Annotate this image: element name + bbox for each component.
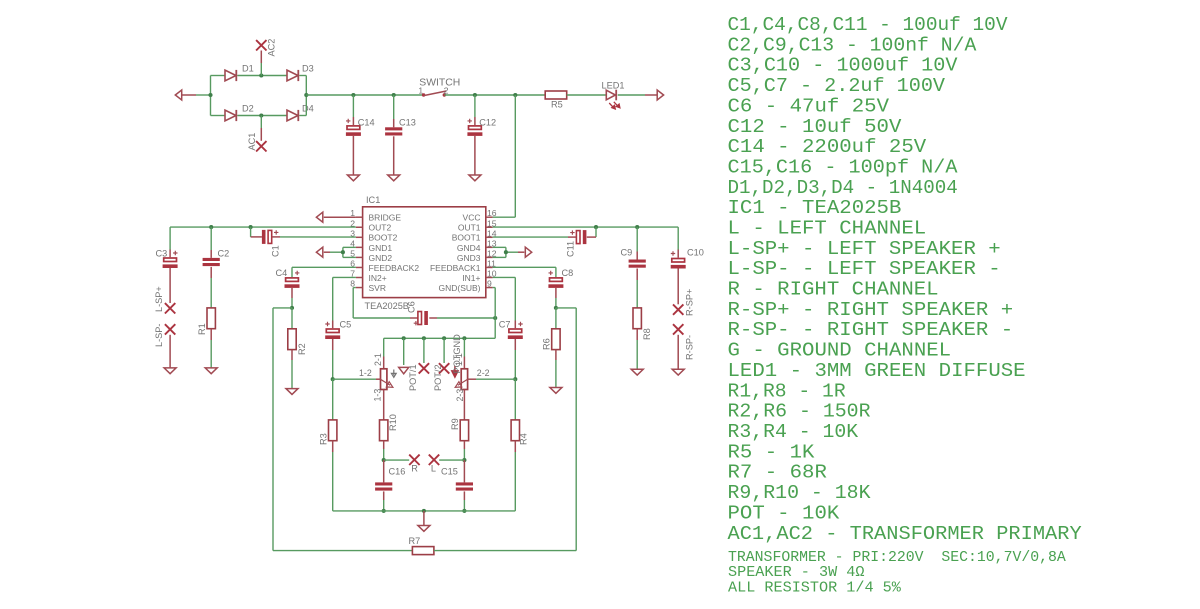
junction VCC drop xyxy=(513,93,517,97)
svg-text:C15,C16 - 100pf N/A: C15,C16 - 100pf N/A xyxy=(728,157,958,179)
pin POT2 1-1 xyxy=(463,357,465,369)
wire node to R2 xyxy=(291,308,293,329)
wire C11 to BOOT1 xyxy=(493,236,568,238)
wire R5 to LED1 xyxy=(567,94,606,96)
resistor R7 xyxy=(412,547,434,555)
wire node down to R3 xyxy=(332,379,334,420)
pin 9 stub xyxy=(486,287,493,289)
pin R2 bottom xyxy=(291,350,293,360)
connector POTGND arrow xyxy=(452,366,458,377)
potentiometer POT1 body xyxy=(381,369,387,390)
wire SVR to C6 xyxy=(353,317,410,319)
diode D4 xyxy=(287,110,298,121)
wire OUT2 down to C3 xyxy=(169,227,171,249)
wire R10 to input node xyxy=(383,449,385,460)
wire FEEDBACK1 xyxy=(493,266,556,268)
junction C11 branch xyxy=(594,225,598,229)
svg-text:POT/1: POT/1 xyxy=(408,364,418,391)
pin gnd arrow right xyxy=(518,251,524,253)
capacitor C16 xyxy=(375,482,392,490)
svg-text:SWITCH: SWITCH xyxy=(419,77,460,88)
svg-text:GND4: GND4 xyxy=(457,243,481,253)
resistor R9 xyxy=(460,420,468,441)
svg-text:R2,R6 - 150R: R2,R6 - 150R xyxy=(728,401,871,423)
wire C5 to pot node xyxy=(332,350,334,379)
svg-text:POT - 10K: POT - 10K xyxy=(728,502,840,524)
svg-text:R5: R5 xyxy=(551,100,563,110)
wire bridge left vertical xyxy=(210,76,212,116)
pin POT1 2-1 xyxy=(383,357,385,369)
junction bridge right xyxy=(304,93,308,97)
pin 10 stub xyxy=(486,277,493,279)
pin R6 bottom xyxy=(555,350,557,360)
svg-text:R2: R2 xyxy=(297,343,307,355)
connector POT/1 arrow xyxy=(399,367,409,373)
pin 2 stub xyxy=(356,226,363,228)
POT1 adjust arrow xyxy=(391,370,396,378)
pin 6 stub xyxy=(356,266,363,268)
junction X mark 1 xyxy=(422,336,426,340)
connector AC1 xyxy=(256,141,266,151)
pin C6 left xyxy=(410,317,418,319)
svg-text:C10: C10 xyxy=(687,248,704,258)
svg-text:C13: C13 xyxy=(399,117,416,127)
pin C8 bottom xyxy=(555,288,557,298)
capacitor C14 xyxy=(346,119,361,136)
junction C13 xyxy=(392,93,396,97)
svg-text:R8: R8 xyxy=(642,328,652,340)
svg-text:OUT1: OUT1 xyxy=(458,223,481,233)
wire SVR stub xyxy=(353,287,356,289)
pin C3 top xyxy=(169,250,171,258)
svg-text:R10: R10 xyxy=(388,414,398,431)
connector AC2 xyxy=(256,40,266,50)
ground below R8 xyxy=(631,369,643,375)
resistor R3 xyxy=(329,420,337,441)
svg-text:LED1 - 3MM GREEN DIFFUSE: LED1 - 3MM GREEN DIFFUSE xyxy=(728,360,1026,382)
wire down to C4 xyxy=(291,267,293,277)
svg-text:C14: C14 xyxy=(358,117,375,127)
svg-text:R9: R9 xyxy=(450,418,460,430)
svg-text:L-SP+ - LEFT SPEAKER +: L-SP+ - LEFT SPEAKER + xyxy=(728,238,1001,260)
wire rail to C12 xyxy=(474,95,476,117)
legend notes small xyxy=(728,550,1066,597)
ground below R2 xyxy=(286,389,298,395)
svg-text:C11: C11 xyxy=(566,241,576,257)
resistor R1 xyxy=(207,308,215,329)
svg-text:G - GROUND CHANNEL: G - GROUND CHANNEL xyxy=(728,340,952,362)
svg-text:C7: C7 xyxy=(499,320,511,330)
svg-text:ALL RESISTOR 1/4 5%: ALL RESISTOR 1/4 5% xyxy=(728,581,901,597)
svg-text:R5 - 1K: R5 - 1K xyxy=(728,441,815,463)
ground below R1 xyxy=(205,368,217,374)
svg-text:SVR: SVR xyxy=(369,283,386,293)
wire R4 to bottom bus xyxy=(514,452,516,511)
junction C2 top xyxy=(209,225,213,229)
connector L-SP+ xyxy=(165,303,175,313)
pin 8 stub xyxy=(356,287,363,289)
svg-text:1-2: 1-2 xyxy=(359,368,372,378)
diode D1 xyxy=(225,70,236,81)
junction POT/1 connector xyxy=(402,336,406,340)
svg-text:R: R xyxy=(411,464,418,474)
svg-text:D1,D2,D3,D4 - 1N4004: D1,D2,D3,D4 - 1N4004 xyxy=(728,177,958,199)
svg-text:VCC: VCC xyxy=(463,213,481,223)
capacitor C11 xyxy=(570,230,586,244)
svg-text:D4: D4 xyxy=(302,104,314,114)
wire OUT1 rail xyxy=(493,226,679,228)
svg-text:R1,R8 - 1R: R1,R8 - 1R xyxy=(728,380,846,402)
svg-text:D1: D1 xyxy=(242,64,254,74)
LED LED1 xyxy=(606,90,620,109)
wire IN1+ down to C7 xyxy=(514,277,516,320)
pin R10 bottom xyxy=(383,441,385,449)
wire bus to POT1 xyxy=(383,338,385,356)
wire R3 to bottom bus xyxy=(332,452,334,511)
pin R8 bottom xyxy=(636,329,638,340)
wire OUT1 down to C10 xyxy=(677,227,679,249)
wire D2 cathode to D4 anode xyxy=(238,115,288,117)
connector gnd arrow left xyxy=(316,247,322,257)
connector R-SP- xyxy=(673,324,683,334)
svg-text:C3,C10 - 1000uf 10V: C3,C10 - 1000uf 10V xyxy=(728,55,958,77)
connector L-SP- xyxy=(165,324,175,334)
svg-text:R3,R4 - 10K: R3,R4 - 10K xyxy=(728,421,859,443)
svg-text:GND2: GND2 xyxy=(369,253,393,263)
svg-text:LED1: LED1 xyxy=(602,80,625,90)
svg-text:1-1: 1-1 xyxy=(454,353,464,366)
wire OUT2 rail xyxy=(170,226,356,228)
capacitor C15 xyxy=(456,482,473,490)
svg-text:OUT2: OUT2 xyxy=(369,223,392,233)
svg-text:R3: R3 xyxy=(319,433,329,445)
junction C7/R4/POT2 xyxy=(513,377,517,381)
wire OUT2 down to C2 xyxy=(210,227,212,250)
pin 14 stub xyxy=(486,236,493,238)
pin C12 to ground xyxy=(474,136,476,175)
pin AC1 xyxy=(260,128,262,141)
diode D2 xyxy=(225,110,236,121)
pin R3 bottom xyxy=(332,441,334,452)
junction C4/R2/feedback loop xyxy=(290,306,294,310)
wire VCC vertical xyxy=(514,95,516,217)
pin 16 stub xyxy=(486,216,493,218)
svg-text:L - LEFT CHANNEL: L - LEFT CHANNEL xyxy=(728,218,927,240)
capacitor C7 xyxy=(508,322,523,339)
op-amp IC U1 TEA2025B body xyxy=(363,207,486,298)
pin 5 stub xyxy=(356,256,363,258)
ground below R-SP- xyxy=(672,369,684,375)
svg-text:C4: C4 xyxy=(276,268,288,278)
svg-text:2-3: 2-3 xyxy=(455,389,465,402)
wire VCC to pin16 xyxy=(493,216,516,218)
svg-text:AC1: AC1 xyxy=(247,133,257,151)
pin C11 right xyxy=(587,236,596,238)
pin R4 bottom xyxy=(514,441,516,452)
resistor R5 xyxy=(545,91,567,99)
connector L input xyxy=(429,455,439,465)
pin gnd arrow left xyxy=(324,251,330,253)
svg-text:C5: C5 xyxy=(340,320,352,330)
svg-text:C5,C7 - 2.2uf 100V: C5,C7 - 2.2uf 100V xyxy=(728,75,946,97)
svg-text:C14 - 2200uf 25V: C14 - 2200uf 25V xyxy=(728,136,927,158)
pin C16 top xyxy=(383,460,385,482)
wire to X mark 2 xyxy=(443,338,445,363)
wire GND(SUB) stub xyxy=(493,287,496,289)
capacitor C6 xyxy=(414,311,428,325)
svg-text:AC2: AC2 xyxy=(267,39,277,57)
pin C10 top xyxy=(677,250,679,258)
wire to POT/1 arrow xyxy=(403,338,405,365)
pin arrow right xyxy=(645,94,657,96)
wire D3 to right vertical xyxy=(300,75,307,77)
svg-text:C6 - 47uf 25V: C6 - 47uf 25V xyxy=(728,95,890,117)
svg-text:AC1,AC2 - TRANSFORMER PRIMARY: AC1,AC2 - TRANSFORMER PRIMARY xyxy=(728,523,1082,545)
wire C9 to R8 xyxy=(636,280,638,308)
svg-text:POT/2: POT/2 xyxy=(433,364,443,391)
junction gnd bracket left xyxy=(341,250,345,254)
svg-text:C2: C2 xyxy=(218,248,230,258)
wire bracket vertical right xyxy=(505,247,507,257)
wire D1 cathode to D3 anode xyxy=(238,75,288,77)
wire GND(SUB) down xyxy=(494,288,496,339)
capacitor C9 xyxy=(629,260,646,268)
wire to R input X xyxy=(384,459,410,461)
pin C2 bottom xyxy=(210,267,212,278)
svg-text:C15: C15 xyxy=(441,467,458,477)
svg-text:C3: C3 xyxy=(156,248,168,258)
svg-text:BRIDGE: BRIDGE xyxy=(369,213,402,223)
pin L-SP- to ground xyxy=(169,335,171,368)
POT2 wiper xyxy=(455,379,467,387)
wire rail to switch xyxy=(306,94,423,96)
svg-text:C1,C4,C8,C11 - 100uf 10V: C1,C4,C8,C11 - 100uf 10V xyxy=(728,14,1008,36)
pin 15 stub xyxy=(486,226,493,228)
wire to D1 anode xyxy=(211,75,226,77)
capacitor C4 xyxy=(285,271,300,288)
svg-text:BOOT2: BOOT2 xyxy=(369,233,398,243)
capacitor C3 xyxy=(163,251,178,268)
svg-text:FEEDBACK2: FEEDBACK2 xyxy=(369,263,420,273)
junction C5/R3/POT1 xyxy=(331,377,335,381)
svg-text:R6: R6 xyxy=(542,338,552,350)
junction AC2 node xyxy=(259,73,263,77)
svg-text:2-2: 2-2 xyxy=(477,368,490,378)
connector arrow right xyxy=(657,90,663,100)
capacitor C2 xyxy=(203,258,220,266)
wire LED1 to arrow xyxy=(618,94,645,96)
pin AC2 xyxy=(260,51,262,64)
pin 3 stub xyxy=(356,236,363,238)
junction bottom ground xyxy=(422,509,426,513)
wire D4 to right vertical xyxy=(300,115,307,117)
svg-text:IN1+: IN1+ xyxy=(462,273,480,283)
wire OUT1 down to C9 xyxy=(636,227,638,251)
svg-text:R-SP+: R-SP+ xyxy=(685,289,695,316)
wire node to R6 xyxy=(555,308,557,329)
ground below L-SP- xyxy=(164,368,176,374)
resistor R8 xyxy=(633,308,641,329)
pin C15 bottom xyxy=(463,491,465,500)
svg-text:L-SP+: L-SP+ xyxy=(154,286,164,312)
wire right loop vertical xyxy=(575,308,577,551)
pin arrow left xyxy=(182,94,197,96)
capacitor C10 xyxy=(671,251,686,268)
wire R9 to input node xyxy=(463,449,465,460)
junction C8/R6/feedback loop xyxy=(554,306,558,310)
wire bracket to gnd arrow xyxy=(330,251,343,253)
svg-text:R - RIGHT CHANNEL: R - RIGHT CHANNEL xyxy=(728,279,939,301)
svg-text:BOOT1: BOOT1 xyxy=(452,233,481,243)
connector arrow left xyxy=(175,90,181,100)
pin R1 bottom xyxy=(210,329,212,340)
pin 1 stub xyxy=(356,216,363,218)
pin C1 right xyxy=(272,236,280,238)
ground below R6 xyxy=(550,388,562,394)
svg-text:TEA2025B: TEA2025B xyxy=(365,301,409,311)
wire pin12 bracket xyxy=(493,256,506,258)
capacitor C1 xyxy=(262,230,279,244)
wire C15 to bottom bus xyxy=(463,500,465,511)
svg-text:TRANSFORMER - PRI:220V SEC:10: TRANSFORMER - PRI:220V SEC:10,7V/0,8A xyxy=(728,550,1066,566)
svg-text:9: 9 xyxy=(487,279,492,289)
pin C3 to L-SP+ xyxy=(169,268,171,303)
svg-text:GND1: GND1 xyxy=(369,243,393,253)
wire down to C11 xyxy=(595,227,597,237)
wire IN2+ xyxy=(333,276,356,278)
wire SVR down xyxy=(352,288,354,318)
junction C16 bottom xyxy=(382,509,386,513)
wire L input X to node xyxy=(439,459,464,461)
pin 4 stub xyxy=(356,246,363,248)
wire IN1+ xyxy=(493,276,516,278)
svg-text:L: L xyxy=(431,464,436,474)
ground below C13 xyxy=(388,175,400,181)
pin POT1 1-2 xyxy=(376,378,381,380)
resistor R6 xyxy=(552,329,560,350)
svg-text:L-SP-: L-SP- xyxy=(154,324,164,348)
wire C1 to BOOT2 xyxy=(280,236,356,238)
wire R7 right xyxy=(434,550,576,552)
pin C1 left xyxy=(251,236,262,238)
wire left loop vertical xyxy=(272,308,274,551)
svg-text:C6: C6 xyxy=(407,301,417,313)
wire to X mark 1 xyxy=(423,338,425,363)
junction AC1 node xyxy=(259,113,263,117)
capacitor C12 xyxy=(467,119,482,136)
wire bracket vertical left xyxy=(342,247,344,257)
svg-text:16: 16 xyxy=(487,208,497,218)
svg-text:C1: C1 xyxy=(271,245,281,257)
wire node to left loop xyxy=(273,307,292,309)
svg-text:1: 1 xyxy=(418,85,423,95)
svg-text:IC1 - TEA2025B: IC1 - TEA2025B xyxy=(728,197,902,219)
wire bus to POT2 xyxy=(463,338,465,356)
wire AC1 xyxy=(260,116,262,129)
wire AC2 xyxy=(260,63,262,76)
switch SWITCH xyxy=(422,91,446,97)
pin C9 top xyxy=(636,252,638,260)
ground below C14 xyxy=(347,175,359,181)
pin 7 stub xyxy=(356,277,363,279)
wire node down to R4 xyxy=(514,379,516,420)
wire rail to C13 xyxy=(393,95,395,119)
wire arrow to bridge xyxy=(196,94,211,96)
svg-text:C16: C16 xyxy=(389,467,406,477)
wire node to right loop xyxy=(556,307,576,309)
pin POT2 2-3 to R9 xyxy=(463,390,465,420)
svg-text:FEEDBACK1: FEEDBACK1 xyxy=(430,263,481,273)
svg-text:R4: R4 xyxy=(518,433,528,445)
pin C7 top xyxy=(514,321,516,329)
junction C9 top xyxy=(635,225,639,229)
pin bottom ground xyxy=(423,511,425,526)
svg-text:1-3: 1-3 xyxy=(373,389,383,402)
capacitor C8 xyxy=(548,271,563,288)
pin C7 bottom xyxy=(514,339,516,350)
wire pin5 bracket xyxy=(343,256,356,258)
wire node to POT1 1-2 xyxy=(333,378,376,380)
wire C2 to R1 xyxy=(210,278,212,308)
svg-text:R7: R7 xyxy=(409,536,421,546)
svg-text:2: 2 xyxy=(444,85,449,95)
ground below C12 xyxy=(469,175,481,181)
wire pin4 bracket xyxy=(343,246,356,248)
resistor R10 xyxy=(380,420,388,441)
junction C15 bottom xyxy=(462,509,466,513)
junction C1 branch xyxy=(249,225,253,229)
pin C6 right xyxy=(429,317,437,319)
svg-text:D3: D3 xyxy=(302,64,314,74)
ground bottom center xyxy=(418,526,430,532)
diode D3 xyxy=(287,70,298,81)
connector gnd arrow right xyxy=(525,247,531,257)
pin C11 left xyxy=(568,236,576,238)
svg-text:C12: C12 xyxy=(479,117,496,127)
svg-text:R-SP-: R-SP- xyxy=(685,335,695,360)
pin C5 top xyxy=(332,321,334,329)
wire R6 to ground xyxy=(555,360,557,388)
wire FEEDBACK2 xyxy=(292,266,356,268)
pin C13 top xyxy=(393,119,395,127)
svg-text:R-SP- - RIGHT SPEAKER -: R-SP- - RIGHT SPEAKER - xyxy=(728,319,1014,341)
pin C4 bottom xyxy=(291,288,293,298)
svg-text:R7 - 68R: R7 - 68R xyxy=(728,462,828,484)
resistor R4 xyxy=(511,420,519,441)
svg-text:C8: C8 xyxy=(562,268,574,278)
legend component values xyxy=(728,14,1082,545)
svg-text:R1: R1 xyxy=(197,323,207,335)
wire bracket to gnd arrow right xyxy=(506,251,518,253)
svg-text:SPEAKER - 3W 4Ω: SPEAKER - 3W 4Ω xyxy=(728,565,865,581)
junction C14 xyxy=(351,93,355,97)
resistor R2 xyxy=(288,329,296,350)
svg-text:GND3: GND3 xyxy=(457,253,481,263)
wire C6 to GND(SUB) vertical xyxy=(437,317,495,319)
svg-text:C9: C9 xyxy=(621,248,633,258)
pin R9 bottom xyxy=(463,441,465,449)
wire down to C8 xyxy=(555,267,557,277)
connector X mark 2 xyxy=(439,363,449,373)
pin 12 stub xyxy=(486,256,493,258)
svg-text:C12 - 10uf 50V: C12 - 10uf 50V xyxy=(728,116,902,138)
capacitor C13 xyxy=(385,127,402,135)
potentiometer POT2 body xyxy=(461,369,467,390)
wire pin13 bracket xyxy=(493,246,506,248)
wire pot bus xyxy=(384,337,496,339)
junction R input node xyxy=(382,458,386,462)
pin R-SP- to ground xyxy=(677,335,679,370)
